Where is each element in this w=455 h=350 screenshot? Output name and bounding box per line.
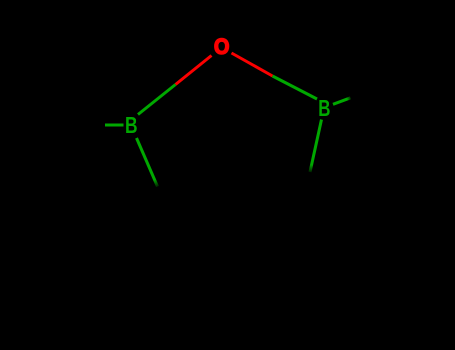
bond B5-C4 green half bbox=[310, 120, 322, 173]
bond B5-CH3 green half bbox=[333, 98, 351, 105]
bond O-B2 red half bbox=[176, 56, 212, 85]
bond B2-CH3 green half bbox=[105, 124, 124, 127]
bond O-B2 green half bbox=[138, 85, 176, 115]
svg-text:O: O bbox=[214, 35, 229, 59]
bond O-B5 red half bbox=[232, 53, 273, 76]
svg-text:B: B bbox=[125, 113, 138, 139]
bond O-B5 green half bbox=[273, 76, 318, 99]
svg-text:B: B bbox=[318, 95, 330, 121]
bond B2-C3 green half bbox=[137, 138, 158, 187]
